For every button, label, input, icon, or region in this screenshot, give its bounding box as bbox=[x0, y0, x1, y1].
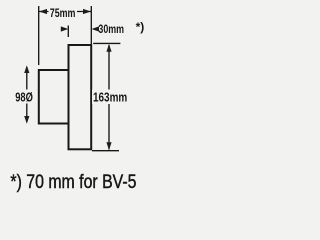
dimension 75mm: right extension line bbox=[90, 6, 92, 44]
dimension 163mm: value label bbox=[92, 90, 129, 105]
dimension 75mm: left extension line bbox=[38, 6, 40, 65]
dimension 163mm: vertical dimension line bbox=[108, 45, 110, 150]
dimension 163mm: top arrowhead bbox=[106, 44, 111, 52]
svg-text:75mm: 75mm bbox=[50, 7, 76, 21]
svg-text:163mm: 163mm bbox=[93, 90, 127, 105]
dimension 163mm: top extension tick bbox=[93, 42, 120, 44]
dimension 30mm: right arrowhead (outside, pointing left) bbox=[92, 26, 100, 31]
dimension 163mm: bottom extension tick bbox=[92, 150, 119, 152]
dimension 75mm: value label bbox=[49, 7, 78, 21]
dimension 75mm: dimension line bbox=[39, 11, 91, 13]
body: front flange (small rectangle, 98mm dia) bbox=[39, 46, 69, 148]
dimension 30mm: left arrowhead (outside, pointing right) bbox=[61, 26, 69, 31]
dimension 98 dia: value label bbox=[14, 90, 36, 106]
footnote marker by 30mm bbox=[136, 20, 145, 34]
dimension 163mm: bottom arrowhead bbox=[106, 142, 111, 150]
footnote text bbox=[10, 171, 136, 193]
dimension 98 dia: bottom arrowhead bbox=[24, 116, 29, 124]
dimension 75mm: left arrowhead bbox=[39, 9, 47, 14]
svg-text:30mm: 30mm bbox=[98, 23, 124, 37]
dimension 98 dia: vertical dimension line bbox=[26, 67, 28, 122]
dimension 75mm: right arrowhead bbox=[83, 9, 91, 14]
dimension 98 dia: top arrowhead bbox=[24, 65, 29, 73]
dimension 30mm: left extension line bbox=[67, 26, 69, 38]
svg-text:98Ø: 98Ø bbox=[15, 91, 33, 105]
svg-text:*): *) bbox=[136, 20, 145, 34]
dimension 30mm: value label bbox=[98, 23, 124, 37]
svg-text:*) 70 mm for BV-5: *) 70 mm for BV-5 bbox=[10, 171, 136, 193]
body: main cylinder (side view, tall rectangle) bbox=[69, 45, 92, 149]
